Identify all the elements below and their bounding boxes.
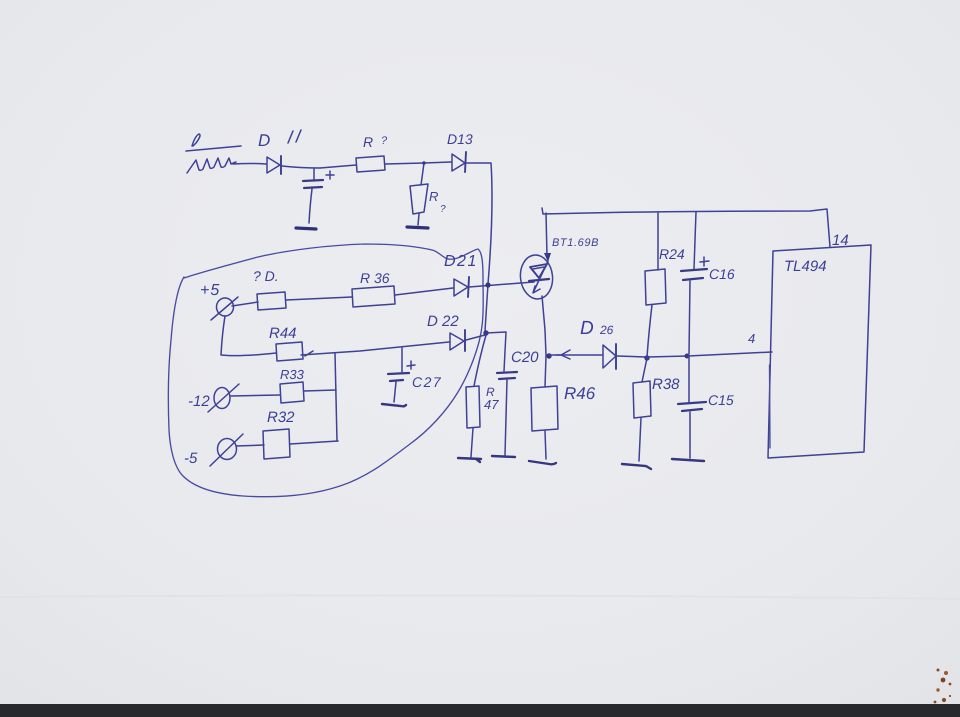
wire R36 to D21 bbox=[395, 288, 453, 295]
diode D21 bbox=[444, 253, 478, 297]
wire thyristor to top bus bbox=[546, 213, 547, 256]
wire L to D11 bbox=[233, 163, 266, 166]
resistor R24 bbox=[645, 213, 685, 357]
svg-text:-12: -12 bbox=[188, 393, 210, 410]
resistor R38 bbox=[633, 358, 680, 461]
wire +5 down to row2 bbox=[221, 316, 276, 356]
capacitor C15 bbox=[678, 356, 734, 458]
resistor R36 bbox=[352, 270, 395, 307]
wire R44 to D22 bbox=[301, 342, 449, 356]
svg-text:R33: R33 bbox=[280, 367, 305, 382]
svg-text:C20: C20 bbox=[511, 349, 539, 366]
enclosure blob bbox=[168, 244, 483, 497]
wire R1 to node A bbox=[385, 163, 424, 164]
capacitor C1 bbox=[303, 168, 334, 223]
svg-text:+5: +5 bbox=[200, 282, 220, 299]
svg-text:R24: R24 bbox=[659, 246, 685, 262]
svg-text:D21: D21 bbox=[444, 253, 478, 270]
svg-text:R 36: R 36 bbox=[360, 270, 390, 286]
wire thyristor to node C bbox=[542, 296, 546, 355]
diode D13 bbox=[447, 131, 473, 172]
wire D26 to node D bbox=[617, 356, 646, 357]
diode D11 bbox=[258, 130, 301, 174]
svg-text:-5: -5 bbox=[184, 450, 198, 467]
svg-text:D: D bbox=[258, 131, 270, 150]
svg-text:C27: C27 bbox=[412, 374, 442, 390]
svg-text:C15: C15 bbox=[708, 392, 734, 408]
wire node D to node E bbox=[647, 356, 688, 357]
wire D22 to node B bbox=[466, 335, 485, 340]
wire node E to pin 4 bbox=[688, 352, 772, 356]
diode D22 bbox=[427, 313, 465, 351]
node A junction bbox=[422, 161, 426, 165]
svg-text:26: 26 bbox=[599, 323, 614, 337]
wire D13 to node B bus bbox=[466, 163, 492, 331]
svg-text:R38: R38 bbox=[652, 376, 680, 393]
wire -5 to R32 bbox=[236, 445, 264, 446]
resistor R32 bbox=[263, 409, 295, 459]
diode D26 bbox=[580, 318, 616, 369]
node B junction bbox=[483, 330, 488, 335]
svg-text:D 22: D 22 bbox=[427, 313, 459, 330]
wire node C to D26 with arrow bbox=[549, 350, 602, 359]
thyristor Q1 bbox=[518, 237, 599, 301]
resistor R? series bbox=[356, 134, 388, 172]
terminal +5 bbox=[200, 282, 238, 320]
capacitor C27 bbox=[388, 348, 442, 402]
ground under C15 bbox=[672, 459, 704, 461]
resistor R47 bbox=[466, 385, 499, 457]
svg-text:R: R bbox=[363, 134, 373, 150]
wire -12 to R33 bbox=[231, 395, 280, 396]
svg-text:47: 47 bbox=[484, 397, 499, 412]
terminal -12 bbox=[188, 384, 239, 412]
svg-text:4: 4 bbox=[748, 331, 755, 346]
svg-text:D: D bbox=[580, 318, 594, 339]
terminal -5 bbox=[184, 434, 243, 467]
wire node B to C20 bbox=[486, 332, 506, 371]
node E junction bbox=[685, 354, 690, 359]
link wire R33 R32 bbox=[335, 353, 337, 441]
svg-text:R32: R32 bbox=[267, 409, 295, 426]
wire node A down bbox=[421, 163, 424, 185]
ground under C20 bbox=[492, 456, 515, 457]
resistor R44 bbox=[269, 325, 303, 361]
node C junction bbox=[546, 353, 551, 358]
wire D11 to C1 node bbox=[282, 166, 320, 168]
svg-text:TL494: TL494 bbox=[784, 258, 827, 275]
wire D21 to thyristor bbox=[469, 282, 534, 287]
ground under R38 bbox=[622, 464, 651, 469]
inductor L bbox=[186, 134, 241, 173]
ground under R46 bbox=[529, 461, 556, 464]
wire +5 to RD bbox=[232, 302, 258, 306]
ground under C1 bbox=[296, 228, 316, 229]
capacitor C20 bbox=[497, 349, 539, 455]
svg-text:C16: C16 bbox=[709, 266, 735, 282]
ground under R? shunt bbox=[407, 227, 428, 228]
wire R33 to link bbox=[304, 390, 336, 391]
svg-text:R44: R44 bbox=[269, 325, 297, 342]
node D junction bbox=[644, 355, 649, 360]
wire ?D to R36 bbox=[286, 297, 352, 300]
svg-text:D13: D13 bbox=[447, 131, 473, 147]
wire node A to D13 bbox=[424, 162, 451, 163]
svg-text:BT1.69B: BT1.69B bbox=[552, 237, 599, 249]
wire C1 node to R1 bbox=[320, 165, 356, 168]
svg-text:R46: R46 bbox=[564, 384, 596, 403]
resistor ?D bbox=[253, 268, 286, 310]
svg-text:R: R bbox=[429, 189, 438, 204]
node junction D21 bus bbox=[485, 282, 490, 287]
svg-text:? D.: ? D. bbox=[253, 268, 279, 284]
wire node B to R47 bbox=[474, 335, 486, 386]
resistor R33 bbox=[280, 367, 305, 403]
resistor R46 bbox=[531, 356, 596, 459]
resistor R? shunt bbox=[410, 184, 446, 225]
svg-text:?: ? bbox=[440, 204, 446, 215]
wire R32 to link bbox=[290, 441, 338, 444]
top bus wire bbox=[542, 208, 830, 247]
capacitor C16 bbox=[681, 212, 735, 354]
IC U1 TL494 bbox=[768, 245, 871, 458]
ground under R47 bbox=[458, 458, 481, 462]
svg-text:?: ? bbox=[381, 135, 388, 147]
ground under C27 bbox=[382, 404, 406, 406]
